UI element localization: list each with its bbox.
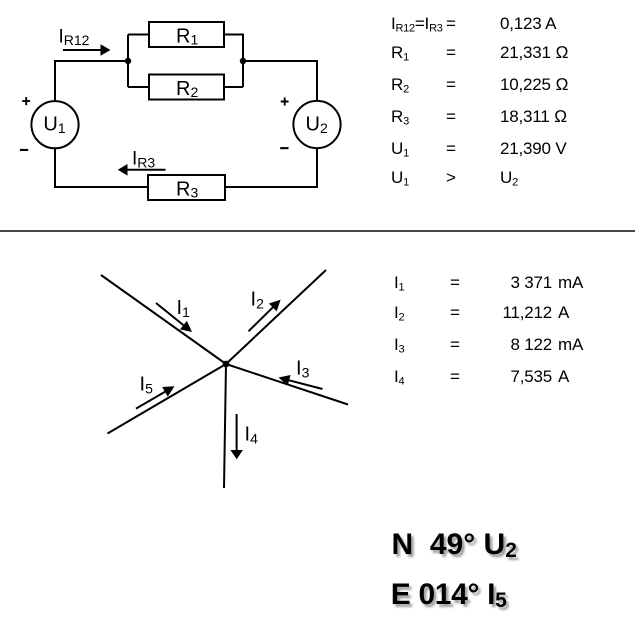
current arrow I2 [249, 300, 281, 332]
value row U1 [391, 139, 409, 159]
coordinate text line E 014 I5 [391, 580, 507, 610]
node B (right junction) [240, 58, 246, 64]
wire: left junction to R1 and R2 [128, 35, 149, 88]
current arrow I5 [136, 386, 175, 408]
U1 plus sign [22, 97, 30, 105]
current arrow I1 [156, 303, 192, 332]
current arrow IR12 [63, 44, 111, 56]
current arrow I3 [279, 375, 323, 389]
value row R3 [391, 107, 409, 127]
current arrow I4 [230, 414, 243, 459]
node junction dot [223, 361, 230, 368]
top circuit schematic [0, 0, 380, 215]
resistor R1 [149, 22, 224, 47]
svg-text:IR12: IR12 [59, 26, 90, 48]
wire I2 branch [226, 270, 326, 364]
svg-text:I2: I2 [251, 288, 265, 311]
wire I1 branch [101, 275, 226, 364]
wire I5 branch [108, 364, 227, 434]
U2 minus sign [280, 147, 288, 149]
value row R2 [391, 75, 409, 95]
value row IR12=IR3 [391, 14, 443, 34]
value row R1 [391, 43, 409, 63]
wire I4 branch [224, 364, 226, 488]
voltage source U1 [31, 101, 78, 148]
current node diagram [60, 250, 380, 500]
svg-text:I5: I5 [140, 373, 154, 396]
value row I4 [394, 367, 404, 387]
svg-text:I4: I4 [245, 423, 259, 446]
U1 minus sign [20, 149, 28, 151]
wire: U2 bottom to R3 right [225, 148, 317, 187]
voltage source U2 [293, 101, 340, 148]
resistor R2 [149, 75, 224, 100]
wire: U1 bottom to R3 left [55, 148, 148, 187]
svg-text:I1: I1 [177, 297, 191, 320]
U2 plus sign [281, 98, 289, 106]
wire I3 branch [226, 364, 348, 405]
value row I1 [394, 273, 404, 293]
node A (left junction) [125, 58, 131, 64]
wire: right junction to U2 top [243, 61, 317, 101]
coordinate text line N 49 U2 [392, 530, 517, 560]
value row I3 [394, 335, 404, 355]
separator line [0, 230, 635, 232]
wire: U1 top to top rail corner [55, 61, 128, 101]
current arrow IR3 [118, 164, 166, 176]
svg-text:IR3: IR3 [132, 149, 155, 171]
resistor R3 [148, 175, 225, 200]
value row U1>U2 [391, 168, 409, 188]
wire: R1 and R2 to right junction [224, 35, 243, 88]
value row I2 [394, 303, 404, 323]
svg-text:I3: I3 [296, 358, 310, 381]
